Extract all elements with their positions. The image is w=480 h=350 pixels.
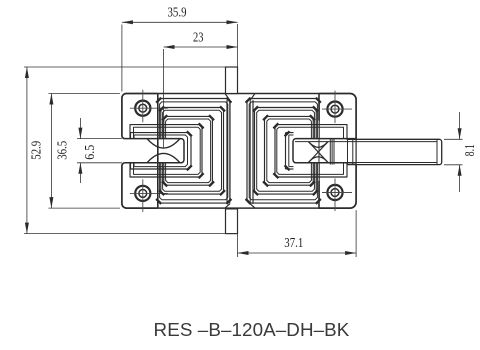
svg-text:35.9: 35.9 bbox=[168, 6, 187, 21]
svg-text:52.9: 52.9 bbox=[29, 141, 44, 160]
svg-text:37.1: 37.1 bbox=[284, 236, 303, 251]
svg-text:23: 23 bbox=[193, 30, 204, 45]
svg-text:6.5: 6.5 bbox=[83, 145, 98, 160]
svg-text:36.5: 36.5 bbox=[56, 141, 71, 160]
svg-text:8.1: 8.1 bbox=[463, 144, 478, 156]
svg-text:RES –B–120A–DH–BK: RES –B–120A–DH–BK bbox=[154, 319, 350, 340]
